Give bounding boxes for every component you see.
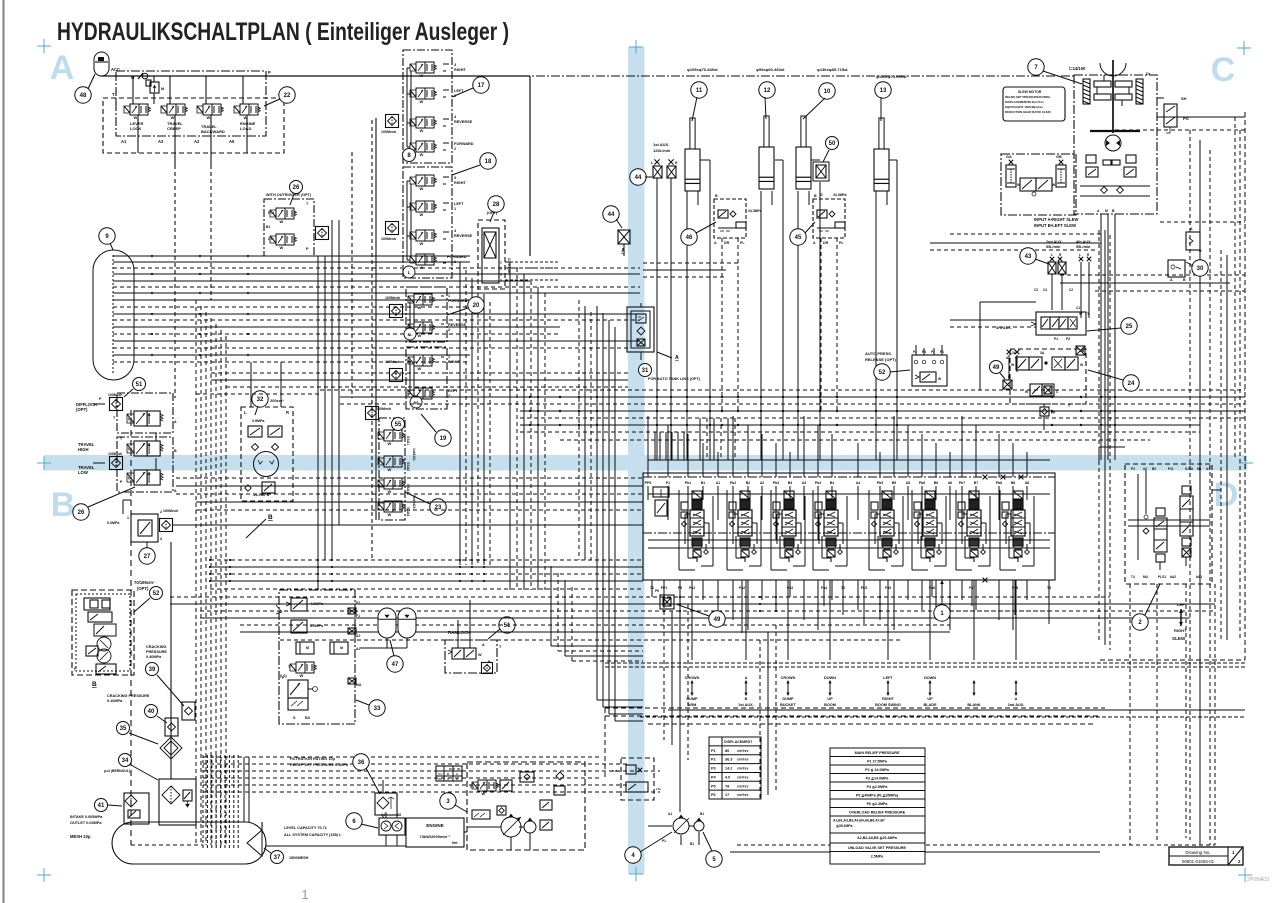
lines blue-band crossing right	[950, 319, 1036, 321]
svg-text:B4: B4	[830, 481, 834, 485]
100Mesh filters pilot column	[386, 115, 399, 128]
hydraulic tank	[112, 822, 266, 864]
SSA pilot valve SSA2	[378, 458, 384, 465]
svg-text:4: 4	[500, 279, 502, 283]
under-bank horizontal bus	[170, 596, 1110, 598]
balloon 1	[934, 605, 950, 621]
svg-text:μ=4 (BERNOUL): μ=4 (BERNOUL)	[104, 769, 130, 773]
100Mesh filter 27	[160, 519, 173, 532]
balloon 28	[488, 196, 504, 212]
svg-text:RIGHT: RIGHT	[1174, 628, 1187, 633]
anti-cavitation block GA GB	[1001, 154, 1076, 215]
svg-text:W: W	[388, 467, 392, 472]
main pump circles	[501, 817, 521, 837]
svg-text:P1: P1	[666, 481, 670, 485]
mid-left horizontal bus lower	[176, 477, 643, 479]
svg-text:28: 28	[493, 202, 500, 208]
outrigger valve upper	[270, 210, 276, 217]
registration ticks	[37, 45, 51, 47]
valve ENGINE LOAD	[234, 106, 240, 113]
central pilot bus bundle	[320, 389, 1245, 391]
svg-text:C4: C4	[1043, 288, 1047, 292]
balloon 22	[279, 87, 295, 103]
bank top connection rail	[648, 459, 1050, 461]
svg-text:M: M	[340, 646, 343, 650]
valve TRAVEL CREEP	[161, 106, 167, 113]
svg-text:100Mesh: 100Mesh	[385, 360, 400, 364]
svg-text:44: 44	[635, 175, 642, 181]
svg-text:1500MESH: 1500MESH	[289, 856, 309, 860]
svg-text:REVERSE: REVERSE	[454, 120, 473, 124]
balloon BS	[410, 396, 422, 408]
svg-text:C1: C1	[470, 785, 474, 789]
svg-text:B1: B1	[690, 842, 694, 846]
gear pumps A4 A8	[379, 818, 405, 835]
balloon 39	[146, 663, 159, 676]
svg-text:LEVEL CAPACITY 70.7L: LEVEL CAPACITY 70.7L	[284, 826, 328, 830]
svg-text:cm³/rev: cm³/rev	[737, 749, 749, 753]
svg-text:35: 35	[120, 726, 127, 732]
svg-text:51: 51	[504, 623, 511, 629]
svg-text:Pb7: Pb7	[959, 481, 965, 485]
valve 24 bottom spool	[1030, 384, 1042, 396]
svg-text:A2: A2	[760, 481, 764, 485]
svg-text:G: G	[820, 193, 823, 197]
svg-text:B: B	[447, 772, 449, 776]
svg-text:2: 2	[454, 147, 456, 151]
svg-text:55: 55	[395, 422, 402, 428]
svg-text:(OPT): (OPT)	[76, 407, 88, 412]
svg-text:bA1: bA1	[1196, 575, 1202, 579]
svg-text:3: 3	[454, 176, 456, 180]
svg-text:PLS1: PLS1	[1158, 575, 1166, 579]
SSA pilot valve SSA1	[378, 432, 384, 439]
balloon BL	[404, 328, 416, 340]
svg-text:B: B	[1199, 249, 1202, 253]
manifold outer dashed box	[103, 98, 284, 153]
main relief pressure table	[830, 748, 925, 864]
balloon 25	[1121, 318, 1137, 334]
svg-text:W: W	[128, 475, 132, 480]
check valve 40	[165, 718, 178, 736]
svg-text:Pb2: Pb2	[730, 481, 736, 485]
balloon 41	[95, 799, 108, 812]
pilot control valve	[410, 119, 416, 126]
svg-text:SSA3: SSA3	[406, 484, 410, 493]
balloon 5	[706, 851, 722, 867]
svg-text:B5: B5	[892, 481, 896, 485]
svg-text:A2,B2,A8,B8 ≦26.4MPa: A2,B2,A8,B8 ≦26.4MPa	[857, 836, 898, 840]
svg-text:B3: B3	[305, 716, 310, 720]
balloon 52	[874, 364, 890, 380]
hand pump rotor	[254, 452, 279, 477]
svg-text:W: W	[134, 115, 138, 120]
bundle junction dots	[151, 255, 153, 257]
twin cylinders small	[296, 642, 314, 654]
svg-text:REDUCTION GEAR RATIO 19.636: REDUCTION GEAR RATIO 19.636	[1005, 110, 1051, 114]
svg-text:W: W	[418, 333, 422, 338]
balloon 9	[99, 228, 115, 244]
suction strainer	[247, 830, 262, 856]
underbank bus to swing	[950, 603, 1215, 605]
wires bank bottom to pump	[663, 604, 665, 740]
svg-text:W: W	[388, 512, 392, 517]
block 32 dashed box	[241, 407, 293, 501]
svg-text:2: 2	[454, 260, 456, 264]
ramlock valve	[452, 648, 464, 659]
balloon 7	[1028, 59, 1044, 75]
svg-text:FILTRATION RATING 10μ: FILTRATION RATING 10μ	[290, 757, 336, 761]
svg-text:M: M	[1105, 209, 1108, 213]
svg-text:0.6MPa: 0.6MPa	[107, 521, 120, 525]
pilot valve group (20) box	[406, 287, 447, 342]
svg-text:36: 36	[358, 760, 365, 766]
svg-text:26: 26	[293, 185, 300, 191]
valve 24 dashed box	[1010, 349, 1086, 404]
bank vertical port stubs bottom	[651, 580, 653, 597]
svg-text:CROWD: CROWD	[685, 676, 700, 680]
svg-text:T: T	[112, 92, 115, 97]
svg-text:A: A	[813, 241, 816, 245]
svg-text:P1: P1	[1054, 337, 1058, 341]
svg-text:45: 45	[795, 235, 802, 241]
svg-text:DR: DR	[724, 241, 730, 245]
svg-text:BOOM SWING: BOOM SWING	[875, 703, 901, 707]
pilot control valve	[410, 143, 416, 150]
SSA valve group box	[379, 418, 405, 520]
svg-text:W: W	[418, 305, 422, 310]
svg-text:SLEW MOTOR: SLEW MOTOR	[1018, 90, 1042, 94]
swing feed lines across top of swing block	[1099, 446, 1125, 448]
svg-text:L: L	[1051, 253, 1053, 257]
svg-text:REVERSE: REVERSE	[448, 323, 467, 327]
svg-text:2nd AUX.: 2nd AUX.	[1008, 703, 1025, 707]
main valve bank outer box	[643, 473, 1055, 580]
svg-text:W: W	[420, 212, 424, 217]
svg-text:P5 ≦40MPa (PL≦35MPa): P5 ≦40MPa (PL≦35MPa)	[856, 794, 899, 798]
svg-text:P1: P1	[662, 839, 666, 843]
long risers column x510-560	[509, 262, 511, 590]
svg-text:Drawing No.: Drawing No.	[1185, 850, 1210, 855]
svg-text:3A: 3A	[1012, 351, 1017, 355]
mid-left horizontal bus upper	[211, 372, 628, 374]
center riser bundle to band	[550, 566, 552, 646]
svg-text:A6: A6	[948, 481, 952, 485]
cylinder 13	[874, 149, 889, 191]
pump regulator dashed box	[467, 762, 585, 850]
return filter 34 assembly	[159, 779, 196, 825]
svg-text:A4: A4	[856, 481, 860, 485]
svg-text:BACKWARD: BACKWARD	[201, 129, 225, 134]
svg-text:FORWARD: FORWARD	[454, 142, 474, 146]
svg-text:W: W	[207, 115, 211, 120]
svg-text:W: W	[420, 128, 424, 133]
svg-text:C2: C2	[438, 777, 442, 781]
counterbalance block 46	[714, 199, 746, 238]
svg-text:P6: P6	[711, 793, 716, 797]
regulator solenoid valve	[472, 782, 478, 789]
swing internals misc	[1144, 515, 1148, 519]
pump drop lines	[680, 835, 682, 845]
bank feed drops from bus	[654, 432, 656, 460]
big dashed frame bottom	[605, 707, 1105, 709]
svg-text:W: W	[128, 446, 132, 451]
pilot control valve	[410, 232, 416, 239]
svg-text:P4: P4	[913, 350, 917, 354]
balloon 51	[499, 617, 515, 633]
svg-text:A: A	[50, 49, 75, 87]
svg-text:HYDRAULIKSCHALTPLAN ( Einteili: HYDRAULIKSCHALTPLAN ( Einteiliger Ausleg…	[57, 18, 509, 46]
svg-text:W: W	[388, 489, 392, 494]
svg-text:SH: SH	[1181, 96, 1187, 101]
svg-text:DISPLACEMENT69.6cm³/rev: DISPLACEMENT69.6cm³/rev	[1005, 100, 1044, 104]
SSA pilot valve SSA4	[378, 503, 384, 510]
svg-text:20: 20	[473, 303, 480, 309]
bank internal rails	[648, 539, 1050, 541]
pilot control valve	[410, 90, 416, 97]
svg-text:B2: B2	[1152, 467, 1156, 471]
valve TRAVEL BACKWARD	[197, 106, 203, 113]
svg-text:cm³/rev: cm³/rev	[737, 758, 749, 762]
SSA pilot valve SSA3	[378, 480, 384, 487]
svg-text:INPUT B•LEFT SLEW: INPUT B•LEFT SLEW	[1034, 223, 1076, 228]
svg-text:ENGINE: ENGINE	[426, 823, 444, 828]
balloon 20	[468, 297, 484, 313]
balloon 43	[1020, 248, 1036, 264]
svg-text:P3: P3	[711, 767, 716, 771]
svg-text:3: 3	[500, 273, 502, 277]
svg-text:B: B	[174, 449, 177, 453]
svg-text:39: 39	[149, 667, 156, 673]
regulator drop dashed box right	[621, 758, 654, 800]
svg-text:bA2: bA2	[1170, 575, 1176, 579]
manifold top feed wires	[132, 76, 134, 104]
svg-text:2.5MPa: 2.5MPa	[871, 855, 884, 859]
svg-text:Pb6: Pb6	[919, 481, 925, 485]
svg-text:LOCK: LOCK	[130, 126, 141, 131]
svg-text:UP: UP	[827, 697, 833, 701]
pilot supply line P	[101, 75, 530, 77]
svg-text:3: 3	[160, 537, 162, 541]
balloon 33	[369, 700, 385, 716]
svg-text:1st AUX.: 1st AUX.	[738, 703, 753, 707]
svg-text:100Mesh: 100Mesh	[108, 452, 122, 456]
control valve section	[969, 491, 979, 499]
svg-text:A1: A1	[1206, 467, 1210, 471]
bus junction dots	[529, 396, 531, 398]
svg-text:B1: B1	[701, 481, 705, 485]
pilot feed vertical line	[375, 118, 377, 520]
svg-text:10: 10	[824, 89, 831, 95]
balloon 4	[625, 847, 641, 863]
svg-text:C3: C3	[1034, 288, 1038, 292]
svg-text:A8: A8	[1025, 481, 1029, 485]
svg-text:SSA4: SSA4	[406, 507, 410, 516]
balloon 45	[790, 229, 806, 245]
svg-text:P2: P2	[1066, 337, 1070, 341]
crossed port marks	[983, 475, 988, 480]
balloon 26	[73, 504, 89, 520]
svg-text:L: L	[651, 161, 653, 165]
swivel joint wire bundle	[113, 255, 470, 257]
svg-text:T4: T4	[1131, 575, 1135, 579]
svg-text:2: 2	[160, 510, 162, 514]
check valve 39	[182, 702, 195, 720]
left margin gray border	[2, 0, 4, 903]
svg-text:40: 40	[148, 709, 155, 715]
svg-text:RIGHT: RIGHT	[454, 181, 466, 185]
vertical dashed pilot lines	[174, 165, 176, 398]
balloon 24	[1123, 375, 1139, 391]
balloon 36	[353, 754, 369, 770]
svg-text:(OPT): (OPT)	[137, 586, 149, 591]
dashed drops 46/45	[721, 238, 723, 410]
swing crossing rails	[1128, 519, 1210, 521]
svg-text:PRESSURE: PRESSURE	[146, 650, 167, 654]
svg-text:C1: C1	[1076, 306, 1080, 310]
svg-text:14.2: 14.2	[725, 767, 732, 771]
svg-text:P₁P₂: P₁P₂	[612, 769, 619, 773]
svg-text:cm³/rev: cm³/rev	[737, 767, 749, 771]
pilot valve group (18) box	[403, 167, 452, 278]
svg-text:R H: R H	[268, 211, 274, 215]
pump unit table	[436, 766, 462, 781]
svg-text:FOR AUTO TANK LINE (OPT): FOR AUTO TANK LINE (OPT)	[648, 377, 701, 381]
svg-text:W: W	[128, 416, 132, 421]
svg-text:A1,B1,A3,B3,A4,B4,A6,B6,A7,B7: A1,B1,A3,B3,A4,B4,A6,B6,A7,B7	[833, 819, 885, 823]
vertical fold band	[628, 47, 645, 874]
svg-text:Pb5: Pb5	[877, 481, 883, 485]
svg-text:W: W	[388, 441, 392, 446]
svg-text:P2: P2	[931, 350, 935, 354]
svg-text:CROWD: CROWD	[781, 676, 796, 680]
svg-text:P: P	[268, 70, 271, 75]
balloon 6	[346, 813, 362, 829]
block 50	[813, 162, 829, 181]
motor circle	[1105, 135, 1121, 151]
svg-text:33: 33	[374, 706, 381, 712]
function arrow BLANK	[973, 681, 975, 695]
svg-text:B: B	[715, 194, 718, 198]
auto press release block	[912, 355, 947, 386]
svg-text:P1: P1	[711, 749, 716, 753]
svg-text:SSA1: SSA1	[406, 436, 410, 445]
gear shaft	[1100, 63, 1126, 76]
accumulator pair	[378, 608, 396, 638]
svg-text:W: W	[420, 186, 424, 191]
svg-text:ALL SYSTEM CAPACITY (155) L: ALL SYSTEM CAPACITY (155) L	[284, 833, 342, 837]
swing spool right	[1180, 496, 1193, 536]
cylinder port lines	[686, 191, 688, 460]
svg-text:2P0BA03: 2P0BA03	[1247, 877, 1269, 883]
svg-text:OUTLET 0.03MPa: OUTLET 0.03MPa	[70, 821, 102, 825]
ramlock drop lines	[457, 620, 459, 648]
svg-text:26: 26	[78, 510, 85, 516]
svg-text:47: 47	[392, 662, 399, 668]
svg-text:AUTO PRESS.: AUTO PRESS.	[865, 351, 892, 356]
svg-text:A2: A2	[356, 634, 360, 638]
svg-text:Pb8: Pb8	[996, 481, 1002, 485]
function arrow 2nd AUX.	[1015, 681, 1017, 695]
cylinder 10	[796, 147, 811, 189]
svg-text:PL: PL	[839, 241, 844, 245]
tank inlet bundle	[202, 755, 204, 848]
pilot control valve	[408, 390, 414, 397]
svg-text:49: 49	[714, 617, 721, 623]
svg-text:2: 2	[448, 328, 450, 332]
pilot control valve	[408, 357, 414, 364]
pilot control valve	[408, 324, 414, 331]
svg-text:100Mesh: 100Mesh	[381, 130, 396, 134]
svg-text:GB: GB	[1056, 155, 1062, 159]
accumulator relief valve	[150, 82, 159, 93]
pilot valve group (BS) box	[406, 347, 447, 409]
svg-text:OVERLOAD RELIEF PRESSURE: OVERLOAD RELIEF PRESSURE	[849, 811, 906, 815]
svg-text:52: 52	[153, 591, 160, 597]
outrigger valve lower	[270, 236, 276, 243]
svg-text:100Mesh: 100Mesh	[108, 393, 122, 397]
svg-text:06801-01065-01: 06801-01065-01	[1182, 859, 1215, 864]
svg-text:24: 24	[1128, 381, 1135, 387]
svg-text:≦35.3MPa: ≦35.3MPa	[836, 824, 853, 828]
svg-text:B: B	[51, 486, 76, 524]
riser bundle right of center	[699, 418, 701, 460]
svg-text:SSA2: SSA2	[406, 462, 410, 471]
svg-text:DR: DR	[823, 241, 829, 245]
svg-text:PPS: PPS	[645, 481, 653, 485]
balloon 32	[252, 391, 268, 407]
brake hatched left	[1083, 79, 1090, 104]
svg-text:A1: A1	[121, 139, 127, 144]
svg-text:13: 13	[880, 88, 887, 94]
svg-text:F1: F1	[356, 614, 360, 618]
control valve section	[784, 491, 794, 499]
svg-text:cm³/rev: cm³/rev	[737, 793, 749, 797]
svg-text:φ105xφ70-840st: φ105xφ70-840st	[687, 67, 718, 72]
svg-text:i=14/100: i=14/100	[1069, 66, 1086, 71]
pilot control valve	[408, 296, 414, 303]
svg-text:A2: A2	[1143, 467, 1147, 471]
svg-text:B8: B8	[1011, 481, 1015, 485]
svg-text:48: 48	[80, 93, 87, 99]
svg-text:cm³/rev: cm³/rev	[737, 784, 749, 788]
relief balloon 49	[660, 595, 674, 609]
svg-text:37: 37	[274, 855, 281, 861]
pilot control valve	[410, 177, 416, 184]
svg-text:1: 1	[127, 516, 129, 520]
svg-text:MU: MU	[1143, 575, 1149, 579]
pilot control valve	[410, 64, 416, 71]
left dashed boundary	[130, 410, 132, 845]
balloon 47	[387, 656, 403, 672]
balloon 34	[119, 754, 132, 767]
travel filter	[110, 457, 123, 470]
control valve section	[692, 491, 702, 499]
svg-text:B: B	[814, 194, 817, 198]
cylinder 11	[685, 149, 700, 191]
spool column drops to arrows	[691, 580, 693, 660]
balloon 52a	[150, 587, 163, 600]
svg-text:SLEW: SLEW	[1172, 636, 1186, 641]
svg-text:P11: P11	[1168, 467, 1174, 471]
travel high valve	[127, 444, 134, 453]
accumulator ACC	[94, 52, 109, 76]
svg-text:WITH OUTRIGGER (OPT): WITH OUTRIGGER (OPT)	[266, 193, 312, 197]
svg-text:100Mesh: 100Mesh	[381, 237, 396, 241]
difflock dash box	[117, 393, 173, 433]
svg-text:B: B	[1183, 278, 1186, 282]
right-mid dashed grid	[1115, 129, 1245, 131]
